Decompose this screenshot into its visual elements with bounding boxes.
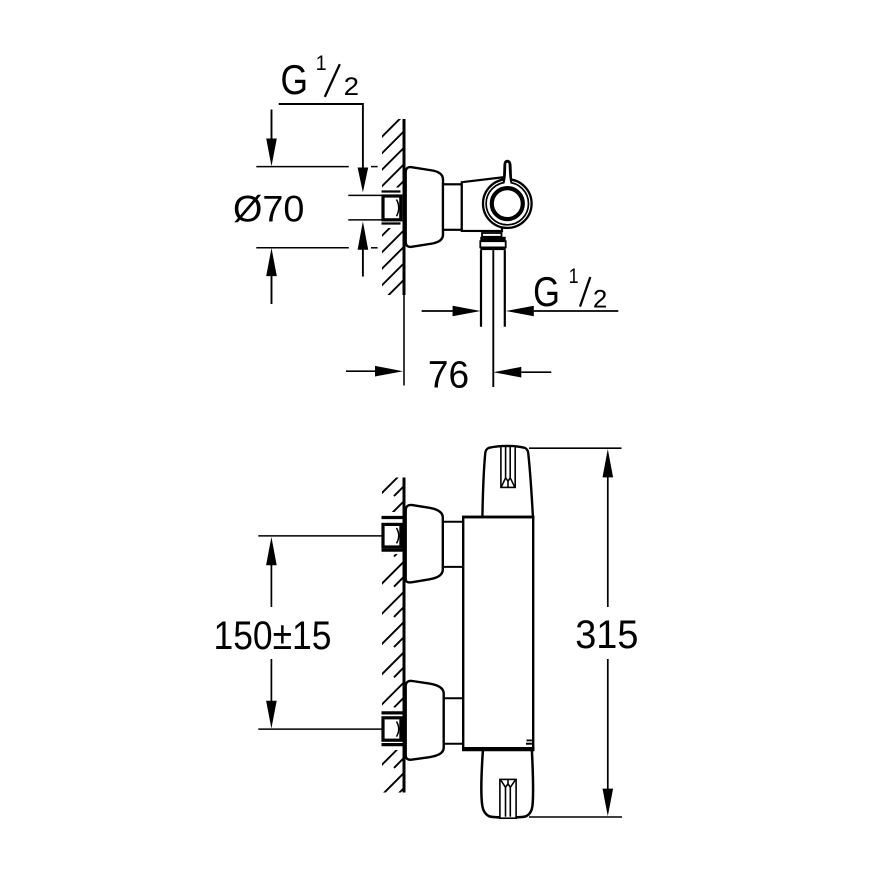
label G 1/2 (top left) [281,52,360,103]
315 dimension arrows [603,449,614,477]
pipe left edge (top view) [480,250,482,327]
svg-text:315: 315 [575,613,638,657]
Ø70 upper arrow (top view) [271,110,273,140]
upper union bottom flange (bottom view) [382,549,403,552]
wall line (bottom view) [403,478,406,793]
lower square union (bottom view) [383,718,401,740]
upper square union (bottom view) [383,524,401,547]
150±15 lower extension line [258,728,382,730]
union nut lower band (top view) [480,247,505,250]
handle outer circle (top view) [483,179,532,228]
arrow down to square union top (top view) [358,168,369,193]
G 1/2 pipe dimension left arrow [422,310,453,312]
svg-text:1: 1 [569,265,579,288]
handle grip ring (top view) [492,188,523,219]
mixer body (bottom view) [463,517,533,749]
pipe right edge (top view) [504,250,506,327]
upper neck lines (bottom view) [443,521,464,523]
150±15 upper extension line [258,535,382,537]
pipe dome inside square union (top view) [397,200,399,217]
escutcheon (top view) [406,167,443,247]
bottom grip inner lines [505,787,507,816]
extension line square top (top view) [348,194,382,196]
valve body neck (top view) [443,184,462,230]
top temperature knob (bottom view) [482,446,533,517]
handle pin lever (top view) [503,160,512,184]
svg-text:2: 2 [344,73,359,101]
Ø70 bottom extension line [256,247,349,249]
svg-text:2: 2 [593,285,607,313]
wall hatching (top view) [380,115,404,321]
leader bracket under G 1/2 [279,104,363,168]
handle middle circle (top view) [486,182,528,224]
pipe dome in lower square (bottom view) [397,722,399,737]
arrow up to square union bottom (top view) [358,221,369,249]
bottom knob grip plate (bottom view) [500,779,516,818]
body top edge thick (bottom view) [462,516,534,519]
union nut body (top view) [480,241,505,247]
315 bottom extension line [529,816,622,818]
hose outlet ticks on body right edge (bottom view) [527,739,532,741]
wall line (top view) [403,119,406,295]
lower union bottom flange (bottom view) [382,743,403,746]
pipe centerline (top view) [492,250,494,387]
lower union top flange (bottom view) [382,711,403,714]
lower neck lines (bottom view) [444,697,464,699]
wall extension line below (top view) [403,295,405,386]
svg-text:1: 1 [316,52,327,75]
lower flange line of wall union (top view) [382,222,401,224]
svg-text:G: G [533,268,560,315]
body bottom edge thick (bottom view) [462,747,535,751]
svg-text:Ø70: Ø70 [233,188,304,230]
150±15 dimension arrows [266,537,277,565]
G 1/2 pipe dimension right arrow [506,306,534,317]
upper escutcheon (bottom view) [406,505,443,582]
handle pin slot (top view) [504,163,511,188]
top grip inner lines [505,447,507,478]
76 dimension right arrow (to pipe centerline) [493,367,521,378]
white pocket lower union (bottom view) [380,708,403,751]
76 dimension left arrow (to wall) [346,370,375,372]
union nut upper band (top view) [480,237,505,241]
white pocket upper union (bottom view) [380,512,403,554]
lower escutcheon (bottom view) [406,681,444,760]
bottom grip chevron [506,784,511,787]
Ø70 lower arrow (top view) [266,248,277,276]
wall hatching (bottom view) [380,471,404,827]
pipe dome in upper square (bottom view) [397,528,399,543]
top grip chevron [506,478,511,481]
upper union top flange (bottom view) [382,516,403,519]
extension line square bottom (top view) [348,219,382,221]
svg-text:76: 76 [428,354,469,396]
upper flange line of wall union (top view) [382,190,401,192]
svg-text:150±15: 150±15 [214,614,332,658]
bottom flow knob (bottom view) [481,751,533,818]
Ø70 top extension line [256,166,349,168]
svg-text:G: G [281,56,309,103]
label G 1/2 (lower right) [533,265,607,315]
union collar below valve (top view) [482,233,502,237]
valve body tapered section (top view) [462,177,502,231]
315 top extension line [529,447,622,449]
white pocket for wall fitting (top view) [380,188,403,229]
top knob grip plate (bottom view) [501,446,515,487]
square wall union (top view) [383,196,401,220]
